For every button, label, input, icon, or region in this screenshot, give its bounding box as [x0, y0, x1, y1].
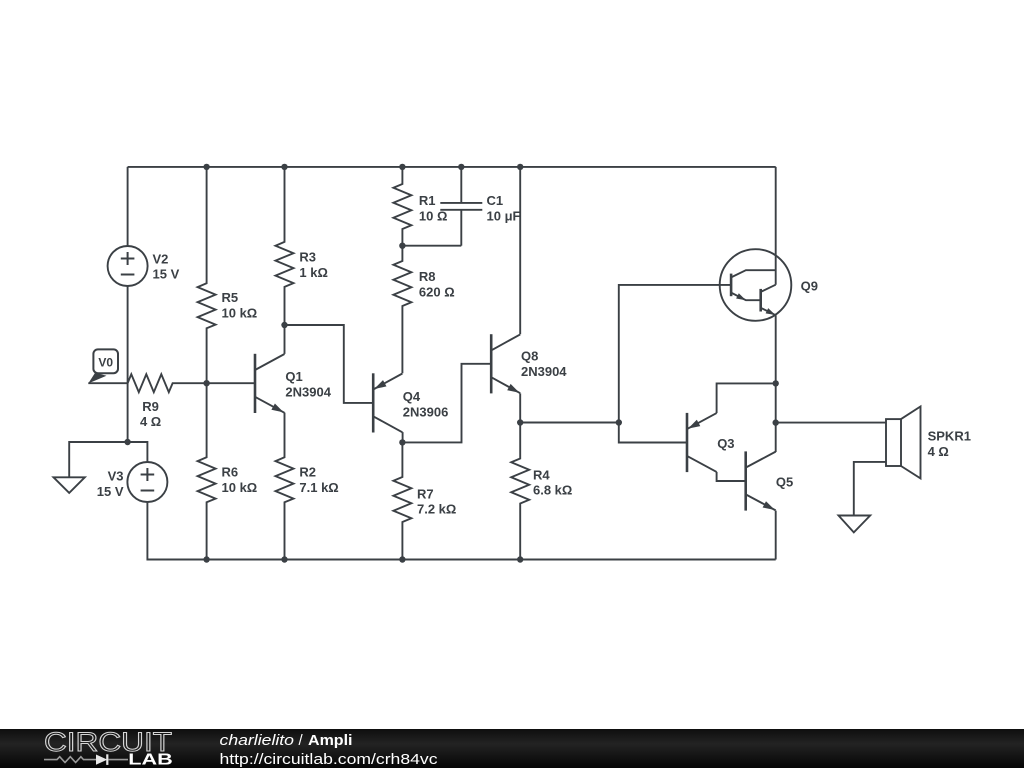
- svg-text:R2: R2: [299, 465, 316, 480]
- svg-text:V3: V3: [108, 469, 124, 484]
- svg-text:15 V: 15 V: [153, 267, 180, 282]
- svg-text:C1: C1: [487, 193, 504, 208]
- svg-text:10 μF: 10 μF: [487, 208, 521, 223]
- svg-text:Q1: Q1: [285, 369, 302, 384]
- svg-text:R8: R8: [419, 269, 436, 284]
- svg-text:6.8 kΩ: 6.8 kΩ: [533, 483, 572, 498]
- svg-text:R4: R4: [533, 467, 550, 482]
- svg-text:V2: V2: [153, 251, 169, 266]
- svg-text:R3: R3: [299, 250, 316, 265]
- svg-text:R9: R9: [142, 399, 159, 414]
- svg-text:4 Ω: 4 Ω: [928, 444, 949, 459]
- svg-text:7.1 kΩ: 7.1 kΩ: [299, 480, 338, 495]
- svg-text:R7: R7: [417, 486, 434, 501]
- svg-text:10 kΩ: 10 kΩ: [222, 480, 258, 495]
- svg-text:R1: R1: [419, 193, 436, 208]
- svg-text:Q5: Q5: [776, 474, 793, 489]
- svg-text:charlielito: charlielito: [220, 732, 295, 749]
- svg-text:http://circuitlab.com/crh84vc: http://circuitlab.com/crh84vc: [220, 751, 439, 768]
- svg-text:7.2 kΩ: 7.2 kΩ: [417, 502, 456, 517]
- svg-text:15 V: 15 V: [97, 484, 124, 499]
- svg-text:4 Ω: 4 Ω: [140, 414, 161, 429]
- svg-text:1 kΩ: 1 kΩ: [299, 265, 328, 280]
- svg-text:2N3904: 2N3904: [521, 364, 567, 379]
- svg-text:Q3: Q3: [717, 436, 734, 451]
- svg-text:Q8: Q8: [521, 349, 538, 364]
- svg-text:LAB: LAB: [128, 752, 173, 768]
- svg-text:2N3904: 2N3904: [285, 384, 331, 399]
- svg-text:Q9: Q9: [801, 279, 818, 294]
- svg-text:V0: V0: [98, 355, 113, 369]
- svg-text:Q4: Q4: [403, 389, 421, 404]
- svg-text:620 Ω: 620 Ω: [419, 284, 455, 299]
- svg-text:R5: R5: [222, 290, 239, 305]
- svg-text:2N3906: 2N3906: [403, 405, 449, 420]
- svg-text:10 kΩ: 10 kΩ: [222, 305, 258, 320]
- svg-text:10 Ω: 10 Ω: [419, 208, 448, 223]
- svg-text:Ampli: Ampli: [308, 732, 353, 749]
- svg-text:SPKR1: SPKR1: [928, 429, 971, 444]
- svg-text:R6: R6: [222, 465, 239, 480]
